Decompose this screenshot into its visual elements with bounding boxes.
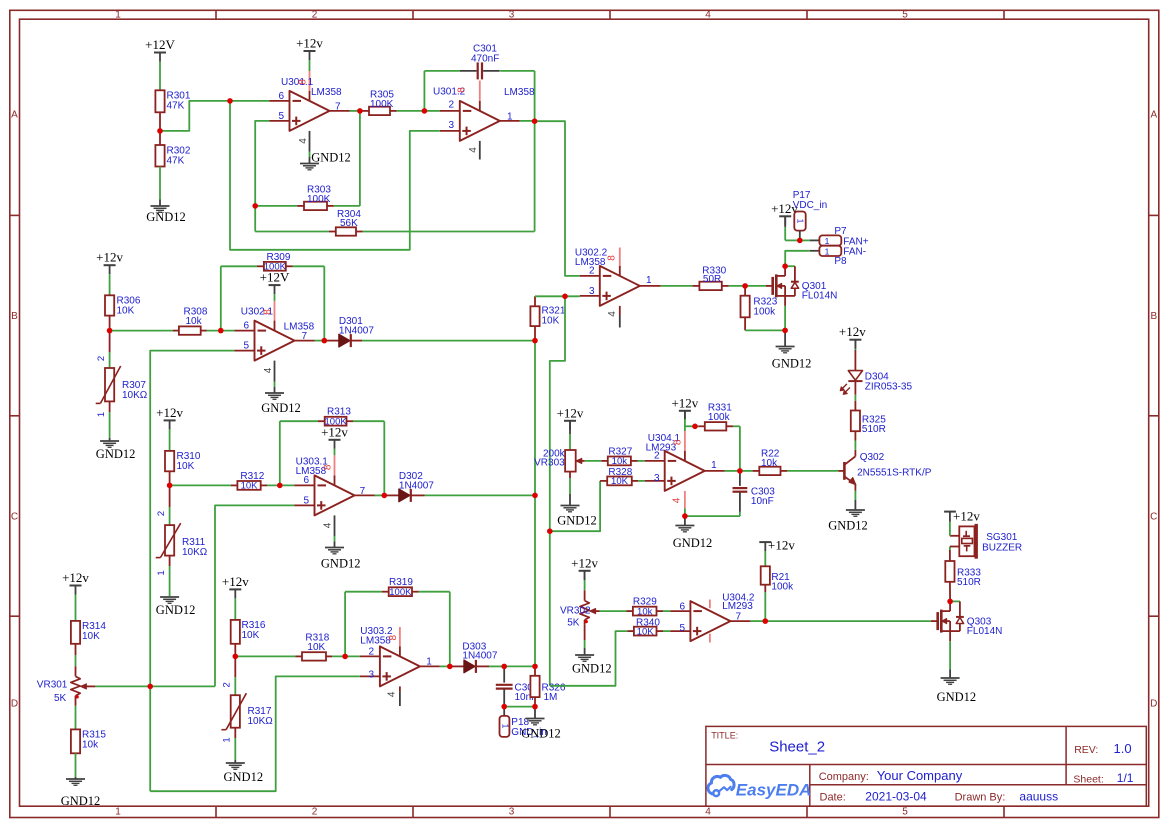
ground (Q302) [828, 500, 868, 533]
node Q301 source / R323 gnd [784, 306, 786, 331]
svg-text:100K: 100K [307, 194, 331, 205]
resistor R309 feedback [221, 252, 324, 341]
svg-text:GND12: GND12 [96, 447, 136, 461]
svg-text:C: C [1150, 512, 1157, 523]
node output U301.2 [520, 120, 535, 122]
svg-text:R313: R313 [327, 407, 351, 418]
power +12v (R306) [96, 250, 123, 296]
svg-text:3: 3 [654, 473, 660, 484]
wire FAN- to drain [785, 251, 810, 266]
ground (U303.1) [321, 548, 361, 571]
diode D302 [384, 471, 535, 502]
resistor R340 [550, 618, 671, 686]
svg-text:REV:: REV: [1074, 744, 1098, 756]
svg-text:3: 3 [509, 807, 515, 818]
op-amp U303.1 [295, 455, 375, 547]
svg-text:1: 1 [825, 246, 830, 256]
node diode-OR rail (D303) [534, 495, 536, 666]
resistor R316 [231, 620, 266, 657]
svg-text:3: 3 [368, 670, 374, 681]
ground (VR303) [557, 494, 597, 528]
node gate Q301 [745, 285, 766, 287]
svg-text:R309: R309 [267, 252, 291, 263]
node Q301 drain [0, 0, 1, 1]
svg-text:10k: 10k [186, 316, 203, 327]
power +12v (D304) [839, 324, 866, 349]
op-amp U304.2 LM293 [670, 592, 754, 642]
thermistor R307 [96, 331, 148, 438]
svg-text:VR301: VR301 [37, 679, 68, 690]
node C301 tap [0, 0, 1, 1]
svg-text:100K: 100K [325, 416, 348, 427]
svg-text:4: 4 [705, 807, 711, 818]
svg-text:A: A [1150, 110, 1157, 121]
svg-text:8: 8 [263, 309, 274, 315]
svg-text:5K: 5K [567, 618, 580, 629]
wire to U302.2 pin2 [535, 121, 580, 276]
svg-text:5: 5 [679, 623, 685, 634]
svg-text:100k: 100k [708, 412, 731, 423]
svg-text:GND12: GND12 [937, 690, 977, 704]
svg-text:4: 4 [607, 311, 618, 317]
svg-text:1: 1 [646, 275, 652, 286]
wire VR301 wiper [95, 685, 215, 687]
svg-text:GND12: GND12 [224, 770, 264, 784]
resistor R329 [600, 597, 671, 618]
wire pin5 U303.1 rail [215, 505, 295, 686]
diode D301 [324, 316, 535, 347]
power +12v (VR303) [557, 405, 584, 450]
svg-text:R329: R329 [633, 597, 657, 608]
wire pin5 feedback rail [255, 121, 269, 232]
svg-text:10K: 10K [177, 461, 195, 472]
svg-text:2: 2 [312, 10, 318, 21]
resistor R326 [530, 666, 565, 706]
svg-text:1: 1 [222, 737, 233, 742]
svg-text:6: 6 [278, 91, 284, 102]
svg-text:GND12: GND12 [557, 514, 597, 528]
svg-text:2: 2 [448, 100, 454, 111]
svg-text:10k: 10k [612, 456, 628, 467]
svg-text:GND12: GND12 [673, 536, 713, 550]
svg-text:1: 1 [426, 657, 432, 668]
svg-text:100K: 100K [370, 99, 394, 110]
svg-text:B: B [1150, 311, 1157, 322]
svg-text:7: 7 [736, 611, 742, 622]
svg-text:Sheet:: Sheet: [1073, 773, 1103, 785]
ground (R317) [224, 760, 264, 784]
svg-text:8: 8 [607, 255, 618, 261]
svg-text:GND12: GND12 [261, 401, 301, 415]
svg-text:ZIR053-35: ZIR053-35 [865, 382, 913, 393]
svg-text:5: 5 [243, 341, 249, 352]
resistor R21 pullup [761, 542, 794, 621]
ground (U301.1) [300, 151, 351, 170]
ground (Q303) [937, 641, 977, 704]
svg-text:GND12: GND12 [772, 357, 812, 371]
svg-text:56K: 56K [340, 218, 358, 229]
wire pin3 U302.2 [535, 296, 580, 686]
svg-text:2: 2 [222, 682, 233, 687]
svg-text:BUZZER: BUZZER [982, 543, 1022, 554]
svg-text:8: 8 [457, 87, 468, 93]
node output U301.1 [350, 110, 360, 112]
resistor R305 [360, 90, 425, 116]
ground (U304.1) [673, 516, 713, 550]
power +12v (P17) [771, 201, 800, 240]
svg-text:EasyEDA: EasyEDA [736, 781, 812, 800]
svg-text:Company:: Company: [819, 771, 869, 783]
svg-text:1: 1 [796, 219, 806, 224]
svg-text:4: 4 [323, 522, 334, 528]
wire [159, 71, 161, 90]
svg-text:7: 7 [360, 486, 366, 497]
power +12v (U304.1 pin8) [671, 395, 698, 431]
ground (VR302) [572, 625, 612, 676]
svg-text:2: 2 [589, 266, 595, 277]
svg-text:+12v: +12v [768, 538, 795, 553]
svg-text:100K: 100K [389, 587, 412, 598]
resistor R306 [105, 295, 141, 330]
node pin6 U302.1 [0, 0, 1, 1]
svg-text:FAN-: FAN- [843, 247, 866, 258]
svg-text:R328: R328 [608, 467, 632, 478]
svg-text:+12v: +12v [62, 570, 89, 585]
ground (U302.1) [261, 393, 301, 415]
resistor R333 [945, 550, 981, 601]
svg-text:10K: 10K [307, 642, 325, 653]
svg-text:3: 3 [589, 286, 595, 297]
svg-text:4: 4 [468, 147, 479, 153]
svg-text:10k: 10k [761, 458, 778, 469]
resistor R319 feedback [345, 577, 450, 666]
svg-text:470nF: 470nF [471, 54, 499, 65]
svg-text:GND12: GND12 [321, 557, 361, 571]
node R310/R311 junction [0, 0, 1, 1]
node wiper rail junction [0, 0, 1, 1]
svg-text:1: 1 [156, 570, 167, 575]
resistor R327 [585, 446, 645, 467]
svg-text:LM358: LM358 [311, 87, 342, 98]
wire [424, 110, 439, 112]
EasyEDA logo [708, 775, 811, 799]
svg-text:+12v: +12v [557, 405, 584, 420]
svg-text:2: 2 [312, 807, 318, 818]
capacitor C302 [496, 666, 539, 706]
node U304.1 pin4 gnd [684, 509, 686, 517]
svg-text:FL014N: FL014N [967, 626, 1003, 637]
svg-text:TITLE:: TITLE: [711, 731, 738, 741]
node pin6 U303.1 [0, 0, 1, 1]
node R303 tap [0, 0, 1, 1]
svg-text:8: 8 [298, 79, 309, 85]
power +12v (R21) [759, 538, 795, 553]
node output U303.2 [440, 665, 450, 667]
svg-text:8: 8 [673, 439, 684, 445]
potentiometer VR303 [534, 448, 585, 494]
svg-text:GND12: GND12 [311, 151, 351, 165]
resistor R312 [170, 471, 295, 491]
svg-text:50R: 50R [703, 274, 721, 285]
power +12v (R314) [62, 570, 89, 621]
svg-text:5: 5 [303, 496, 309, 507]
ground (R326) [521, 707, 561, 741]
op-amp U301.2 [433, 81, 535, 160]
wire pin3 U303.2 [150, 676, 360, 791]
ground (R311) [156, 597, 196, 617]
buzzer SG301 [950, 524, 1022, 559]
node diode-OR rail (D302) [534, 341, 536, 496]
transistor Q303 [931, 601, 1002, 641]
svg-text:7: 7 [335, 102, 341, 113]
svg-text:GND12: GND12 [828, 519, 868, 533]
node pin2 U303.2 [0, 0, 1, 1]
node R328 rail tap [0, 0, 1, 1]
node P17/P7 junction [800, 239, 810, 241]
svg-text:100k: 100k [753, 307, 776, 318]
svg-text:R312: R312 [240, 471, 264, 482]
svg-text:1: 1 [96, 412, 107, 417]
resistor R310 [165, 451, 201, 486]
svg-text:VR303: VR303 [534, 458, 565, 469]
svg-text:1: 1 [115, 807, 121, 818]
power +12v (U301.1 pin8) [296, 36, 323, 72]
svg-text:100k: 100k [771, 582, 794, 593]
resistor R301 [155, 90, 190, 131]
svg-text:1: 1 [507, 111, 513, 122]
svg-text:GND12: GND12 [146, 210, 186, 224]
svg-text:FL014N: FL014N [802, 291, 838, 302]
svg-text:C: C [11, 512, 18, 523]
power +12v (U303.1 pin8) [321, 424, 348, 455]
node output U302.1 [315, 340, 325, 342]
svg-text:8: 8 [388, 634, 399, 640]
svg-text:510R: 510R [957, 577, 981, 588]
svg-text:10K: 10K [117, 306, 135, 317]
svg-text:+12v: +12v [222, 574, 249, 589]
potentiometer VR301 [37, 666, 96, 706]
svg-text:1M: 1M [544, 692, 558, 703]
resistor R318 [235, 633, 360, 661]
svg-text:4: 4 [671, 497, 682, 503]
svg-text:6: 6 [243, 321, 249, 332]
svg-text:B: B [11, 311, 18, 322]
resistor R303 [255, 111, 360, 210]
svg-text:1.0: 1.0 [1114, 741, 1132, 756]
svg-text:SG301: SG301 [986, 532, 1018, 543]
svg-text:2: 2 [156, 511, 167, 516]
svg-text:47K: 47K [167, 101, 185, 112]
resistor R22 [740, 449, 839, 476]
resistor R321 [530, 296, 565, 340]
power +12v (R316) [222, 574, 249, 620]
title block [706, 726, 1146, 806]
svg-text:10K: 10K [542, 316, 560, 327]
svg-text:VDC_in: VDC_in [793, 200, 827, 211]
svg-text:510R: 510R [862, 424, 886, 435]
svg-text:+12v: +12v [671, 395, 698, 410]
svg-text:GND12: GND12 [156, 603, 196, 617]
svg-text:6: 6 [679, 601, 685, 612]
svg-text:Sheet_2: Sheet_2 [769, 739, 825, 756]
ground (R302) [146, 199, 186, 224]
op-amp U301.1 [270, 71, 350, 163]
wire pin5 U302.1 long rail [150, 351, 234, 792]
transistor Q302 2N5551 [839, 441, 932, 501]
svg-text:GND12: GND12 [61, 794, 101, 808]
node R306/R307 junction [0, 0, 1, 1]
svg-text:1: 1 [825, 236, 830, 246]
svg-text:GND12: GND12 [521, 727, 561, 741]
node Q303 drain [0, 0, 1, 1]
power +12v (SG301) [944, 509, 980, 536]
svg-text:10KΩ: 10KΩ [248, 716, 274, 727]
svg-text:1: 1 [115, 10, 121, 21]
svg-text:10nF: 10nF [751, 496, 774, 507]
svg-text:GND12: GND12 [572, 662, 612, 676]
svg-text:1/1: 1/1 [1117, 771, 1134, 785]
svg-text:Date:: Date: [820, 791, 846, 803]
wire pin3 reference [230, 101, 440, 250]
svg-text:2N5551S-RTK/P: 2N5551S-RTK/P [857, 467, 932, 478]
node pin6 rail junction [0, 0, 1, 1]
svg-text:+12v: +12v [953, 509, 980, 524]
svg-text:1N4007: 1N4007 [339, 326, 374, 337]
svg-text:10K: 10K [241, 481, 259, 492]
resistor R314 [71, 621, 106, 666]
capacitor C303 [685, 471, 775, 516]
op-amp U303.2 [360, 626, 440, 706]
svg-text:10KΩ: 10KΩ [122, 390, 148, 401]
power +12v (R310) [156, 405, 183, 451]
svg-text:10K: 10K [242, 630, 260, 641]
resistor R302 [155, 131, 190, 200]
svg-text:R319: R319 [389, 577, 413, 588]
power +12V (R301) [145, 37, 175, 71]
transistor Q301 [766, 266, 837, 306]
svg-text:4: 4 [263, 367, 274, 373]
svg-text:4: 4 [298, 138, 309, 144]
svg-text:+12v: +12v [296, 36, 323, 51]
svg-text:47K: 47K [167, 156, 185, 167]
svg-text:A: A [11, 110, 18, 121]
svg-text:1: 1 [501, 724, 511, 729]
resistor R308 [110, 307, 235, 335]
svg-text:3: 3 [509, 10, 515, 21]
svg-text:P8: P8 [834, 256, 847, 267]
svg-text:+12v: +12v [96, 250, 123, 265]
LED D304 [840, 342, 912, 395]
svg-text:Your Company: Your Company [877, 768, 963, 783]
svg-text:10k: 10k [637, 606, 653, 617]
svg-text:LM358: LM358 [284, 322, 315, 333]
node R316/R317 junction [0, 0, 1, 1]
svg-text:5: 5 [902, 807, 908, 818]
resistor R330 [661, 266, 745, 291]
ground (R307) [96, 438, 136, 461]
node C302 tap [504, 665, 535, 667]
capacitor C301 [424, 44, 534, 122]
potentiometer VR302 [560, 590, 600, 628]
op-amp U302.1 [235, 301, 315, 393]
resistor R328 [550, 467, 645, 531]
connector P18 GND_in [500, 707, 547, 738]
svg-text:2: 2 [96, 356, 107, 361]
svg-text:10KΩ: 10KΩ [182, 547, 208, 558]
node divider junction [0, 0, 1, 1]
wire [160, 101, 270, 131]
power +12V (U302.1 pin8) [260, 270, 290, 301]
node output U304.1 [725, 470, 740, 472]
svg-text:LM358: LM358 [360, 636, 391, 647]
resistor R315 [71, 706, 106, 777]
svg-text:R327: R327 [608, 446, 632, 457]
svg-text:D: D [1150, 699, 1157, 710]
ground (Q301) [772, 330, 812, 370]
ground (R315) [61, 777, 101, 808]
svg-text:+12V: +12V [145, 37, 175, 52]
connector P17 VDC_in [793, 190, 827, 240]
svg-text:100K: 100K [264, 262, 287, 273]
svg-text:1: 1 [711, 460, 717, 471]
svg-text:10k: 10k [82, 740, 99, 751]
svg-text:LM358: LM358 [504, 87, 535, 98]
svg-text:4: 4 [705, 10, 711, 21]
resistor R313 feedback [280, 407, 385, 496]
wire C302-R326 bottom [504, 706, 535, 708]
op-amp U304.1 LM293 [645, 431, 725, 509]
op-amp U302.2 [575, 248, 661, 328]
connector P8 FAN- [810, 246, 866, 268]
svg-text:D: D [11, 699, 18, 710]
node output U304.2 [750, 620, 765, 622]
svg-text:10K: 10K [82, 631, 100, 642]
node diode-OR rail (D301) [0, 0, 1, 1]
svg-text:+12v: +12v [571, 555, 598, 570]
svg-text:2: 2 [368, 646, 374, 657]
diode D303 [450, 641, 504, 673]
svg-text:1N4007: 1N4007 [399, 481, 434, 492]
resistor R325 [851, 395, 886, 441]
svg-text:4: 4 [387, 691, 398, 697]
svg-text:Drawn By:: Drawn By: [955, 791, 1006, 803]
svg-text:1N4007: 1N4007 [462, 651, 497, 662]
svg-text:+12v: +12v [156, 405, 183, 420]
thermistor R317 [221, 656, 273, 760]
svg-text:3: 3 [448, 120, 454, 131]
svg-text:+12v: +12v [839, 324, 866, 339]
svg-text:aauuss: aauuss [1019, 790, 1058, 804]
connector P7 FAN+ [810, 226, 869, 247]
svg-text:5: 5 [902, 10, 908, 21]
resistor R323 [741, 286, 786, 331]
svg-text:VR302: VR302 [560, 605, 591, 616]
thermistor R311 [156, 485, 208, 596]
junction dots overlay [107, 98, 953, 709]
power +12v (VR302) [571, 555, 598, 590]
wire to Q303 gate [765, 620, 931, 622]
svg-text:2021-03-04: 2021-03-04 [865, 790, 927, 804]
svg-text:8: 8 [323, 464, 334, 470]
svg-text:2: 2 [654, 451, 660, 462]
svg-text:5: 5 [278, 111, 284, 122]
svg-text:6: 6 [303, 475, 309, 486]
svg-text:5K: 5K [54, 693, 67, 704]
resistor R304 [255, 121, 534, 236]
svg-text:Q302: Q302 [860, 452, 885, 463]
node output U303.1 [375, 494, 385, 496]
resistor R331 pullup [685, 403, 740, 471]
